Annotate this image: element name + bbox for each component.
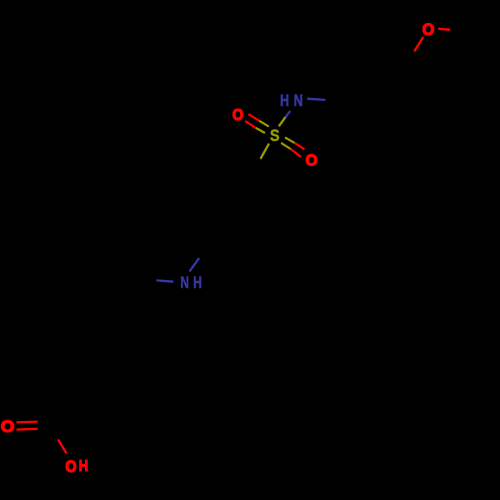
bond S=O3 line b olive half xyxy=(281,143,291,149)
bond N1-S blue half xyxy=(286,111,291,117)
svg-text:O: O xyxy=(65,458,76,476)
bond C=O4 upper line (red half) xyxy=(17,420,38,423)
bond N1-CH2 (blue half) xyxy=(307,99,325,100)
bond S=O3 line a red half xyxy=(295,143,305,149)
svg-text:H: H xyxy=(280,93,289,111)
bond O1-CH3 (red half) xyxy=(438,29,450,30)
svg-text:H: H xyxy=(193,274,202,292)
bond S=O3 line a olive half xyxy=(285,137,295,143)
bond N2-CH2 left (blue half) xyxy=(156,280,173,281)
svg-text:H: H xyxy=(79,458,88,475)
bond N1-S olive half xyxy=(279,117,286,126)
svg-text:N: N xyxy=(180,274,189,292)
svg-text:O: O xyxy=(422,21,434,39)
bond O1-C(aryl) (red half) xyxy=(414,37,423,52)
bond S=O2 line a olive half xyxy=(259,121,269,127)
svg-text:N: N xyxy=(294,93,303,111)
bond N2-C(aryl) up-right (blue half) xyxy=(190,258,200,271)
svg-text:O: O xyxy=(232,106,243,124)
svg-text:S: S xyxy=(270,127,280,145)
bond C=O4 lower line (red half) xyxy=(17,428,38,431)
svg-text:O: O xyxy=(306,152,318,169)
bond S=O2 line b olive half xyxy=(256,128,265,133)
bond S=O2 line b red half xyxy=(245,121,256,128)
bond S=O2 line a red half xyxy=(248,114,259,121)
bond S-C(aryl) olive half xyxy=(261,144,270,159)
bond S=O3 line b red half xyxy=(291,149,301,157)
bond C-O5 (red half, to hydroxyl) xyxy=(58,439,66,453)
svg-text:O: O xyxy=(1,416,15,435)
